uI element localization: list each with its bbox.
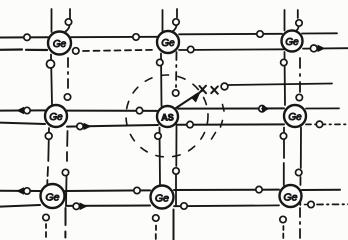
wire col1 bottom right dash-dot	[66, 131, 68, 206]
wire row3 G8-G9 lower	[174, 204, 279, 207]
electron row3 G8-G9 lower	[181, 203, 187, 209]
electron row3 G8-G9 upper	[256, 186, 262, 192]
electron col1 below G7	[43, 214, 49, 220]
orbit dashed circle around As	[126, 75, 208, 157]
wire row1 G2-G3 upper	[179, 33, 282, 36]
electron row2 right dashdot	[316, 121, 322, 127]
electron row2 As-G6 lower	[187, 121, 193, 127]
wire row1 G2-G3 lower	[179, 48, 285, 51]
electron col1 mid right	[64, 94, 70, 100]
wire row3 left lower	[0, 205, 40, 207]
electron row1 left	[24, 34, 30, 40]
wire row2 G4-As lower	[67, 125, 158, 127]
electron row1 G1-G2 lower	[73, 48, 79, 54]
electron row1 G1-G2 upper	[133, 34, 139, 40]
electron row2 G4-As lower with right arrow	[77, 123, 88, 129]
electron col1 mid left	[47, 60, 55, 68]
wire row2 G4-As upper	[67, 110, 157, 112]
svg-text:Ge: Ge	[49, 112, 63, 123]
wire row1 G1-G2 lower dashed	[83, 50, 156, 51]
electron row2 As-G6 upper with arrow	[259, 106, 266, 112]
electron col2 bottom left	[155, 133, 161, 139]
wire row1 right of G3 upper	[302, 32, 337, 34]
wire row1 G1-G2 upper	[71, 36, 157, 38]
electron row1 right arrow	[310, 45, 321, 52]
orbit outer arc dashes	[212, 105, 225, 140]
atom Ge top-left	[48, 32, 71, 55]
wire col3 bottom left	[283, 128, 285, 186]
electron row2 left with left arrow	[20, 107, 30, 113]
electron col3 mid left	[281, 59, 287, 65]
wire col1 top right with hook	[66, 9, 71, 32]
wire col2 bottom left	[159, 128, 162, 186]
electron row3 right with arrow	[305, 201, 315, 207]
free electron	[221, 83, 228, 90]
electron row2 G4-As upper	[136, 107, 142, 113]
electron col3 mid right	[296, 94, 302, 100]
atom Ge bottom-middle	[151, 186, 174, 209]
wire col3 mid right dash-dot	[299, 58, 301, 93]
electron row3 left with left arrow	[20, 188, 30, 194]
wire col1 top left	[51, 9, 53, 32]
svg-text:Ge: Ge	[155, 193, 169, 205]
wire row3 G8-G9 upper	[174, 189, 279, 191]
wire col3 top left	[284, 10, 286, 31]
electron col2 bottom right	[173, 168, 179, 174]
svg-text:Ge: Ge	[161, 38, 175, 49]
arrow from As (escaping electron path)	[176, 91, 203, 109]
wire col2 bottom right	[175, 124, 178, 206]
wire row1 right of G3 lower	[303, 47, 348, 49]
wire col1 mid left	[51, 55, 52, 106]
svg-text:Ge: Ge	[53, 39, 67, 50]
wire col2 mid right dash-dot	[175, 52, 178, 89]
atom Ge top-right	[282, 31, 303, 52]
atom Ge middle-right	[284, 105, 306, 127]
wire col2 below G8 right	[173, 210, 175, 240]
atom Ge bottom-right	[280, 185, 302, 207]
wire col1 bottom left	[47, 128, 49, 184]
wire row2 left lower	[0, 123, 45, 124]
electron col1 bottom left	[45, 133, 52, 140]
electron row1 G2-G3 lower	[188, 46, 194, 52]
wire row2 As-G6 upper	[178, 107, 284, 109]
X mark 2	[211, 86, 218, 93]
wire col2 below G8 left dashes	[155, 226, 157, 240]
electron row1 G2-G3 upper	[257, 31, 263, 37]
electron col1 top	[65, 19, 71, 25]
electron row3 G7-G8 lower with right arrow	[73, 203, 84, 209]
electron col2 mid left	[157, 59, 163, 65]
wire free electron line	[229, 84, 333, 86]
electron col2 below G8	[153, 215, 159, 221]
wire row2 As-G6 lower	[178, 123, 284, 125]
svg-text:AS: AS	[161, 113, 174, 123]
wire row2 right of G6 upper	[306, 107, 339, 109]
wire col3 below G9 right dash-dot	[299, 208, 301, 240]
wire row3 left upper	[0, 190, 40, 192]
electron col1 bottom right	[62, 169, 68, 175]
electron col2 top	[173, 19, 179, 25]
wire row2 left upper	[0, 109, 45, 111]
electron col2 mid right	[173, 90, 179, 96]
wire col2 top left	[162, 10, 164, 31]
wire col3 below G9 left dashes	[282, 226, 284, 238]
wire col2 mid left	[160, 54, 163, 107]
atom Ge middle-left	[45, 105, 67, 127]
svg-text:Ge: Ge	[283, 192, 297, 204]
wire row3 G7-G8 upper	[65, 189, 150, 192]
electron col3 bottom left	[280, 133, 286, 139]
wire col3 mid left	[284, 52, 287, 105]
wire col1 below G7 left dashes	[45, 224, 47, 237]
wire col1 below G7 right	[64, 208, 66, 238]
wire row1 left lower	[0, 48, 47, 51]
wire row3 right of G9 lower dash-dot	[317, 203, 348, 205]
wire row2 right of G6 lower dash-dot	[306, 123, 348, 125]
electron col3 bottom right	[296, 169, 302, 175]
wire col3 bottom right	[299, 128, 302, 207]
X mark 1	[199, 86, 206, 94]
wire col2 top right with hook	[173, 9, 178, 32]
wire col3 top right with hook	[295, 10, 299, 32]
electron col3 top	[296, 20, 302, 26]
svg-text:Ge: Ge	[45, 192, 59, 204]
svg-text:Ge: Ge	[288, 112, 302, 123]
electron row3 G7-G8 upper	[134, 187, 140, 193]
electron col3 below G9	[280, 216, 286, 222]
wire col1 mid right dash-dot	[67, 58, 69, 93]
atom Ge top-middle	[157, 31, 179, 53]
wire row1 left upper	[0, 36, 48, 38]
svg-text:Ge: Ge	[285, 37, 299, 48]
atom As center donor	[157, 106, 178, 127]
atom Ge bottom-left	[41, 184, 65, 208]
wire row3 G7-G8 lower	[66, 205, 150, 207]
wire row3 right of G9 upper	[302, 189, 340, 191]
